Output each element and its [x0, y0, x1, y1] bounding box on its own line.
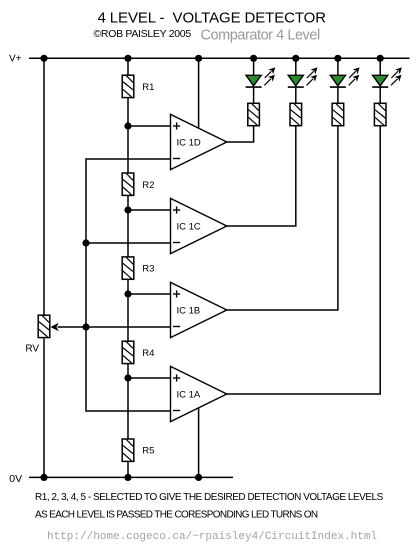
node R1/R2 junction — [124, 122, 131, 129]
node V+/IC supply junction — [195, 55, 202, 62]
node V+/LED1 junction — [250, 55, 257, 62]
svg-text:Comparator 4 Level: Comparator 4 Level — [201, 28, 320, 44]
svg-text:©ROB PAISLEY 2005: ©ROB PAISLEY 2005 — [94, 28, 192, 40]
wire bus to IC 1B inverting input — [86, 326, 171, 328]
wire node R2/R3 to IC 1C + input — [128, 209, 171, 211]
op-amp IC 1C — [171, 198, 227, 253]
svg-text:IC 1A: IC 1A — [177, 390, 201, 401]
wire RV wiper — [58, 326, 87, 328]
node 0V/IC ground junction — [195, 474, 202, 481]
svg-text:R3: R3 — [142, 264, 154, 275]
wire R5 to 0V — [127, 461, 129, 477]
LED D2 (green) — [288, 67, 318, 87]
svg-text:R2: R2 — [142, 180, 154, 191]
wire LED3 cathode to resistor — [337, 87, 339, 103]
node bus/wiper junction — [82, 323, 89, 330]
svg-text:http://home.cogeco.ca/~rpaisle: http://home.cogeco.ca/~rpaisley4/Circuit… — [47, 531, 377, 543]
svg-text:IC 1D: IC 1D — [177, 138, 201, 149]
wire R3 to R4 — [127, 279, 129, 341]
wire V+ supply stub to IC 1D — [198, 58, 200, 129]
wire IC 1B output — [227, 126, 338, 310]
wire IC 1A output — [227, 126, 380, 394]
wire R4 to R5 — [127, 364, 129, 439]
wire V+ to LED2 anode — [295, 58, 297, 76]
wire left rail lower (RV to 0V) — [43, 339, 45, 478]
LED D4 (green) — [372, 67, 402, 87]
svg-text:IC 1C: IC 1C — [177, 222, 201, 233]
node V+/LED4 junction — [377, 55, 384, 62]
wire bus to IC 1C inverting input — [86, 242, 171, 244]
wire V+ to LED3 anode — [337, 58, 339, 76]
node 0V/left rail junction — [40, 474, 47, 481]
wire V+ to LED1 anode — [253, 58, 255, 76]
svg-text:R1, 2, 3, 4, 5 - SELECTED TO G: R1, 2, 3, 4, 5 - SELECTED TO GIVE THE DE… — [35, 492, 384, 503]
op-amp IC 1B — [171, 282, 227, 337]
wire R2 to R3 — [127, 195, 129, 257]
node R2/R3 junction — [124, 206, 131, 213]
svg-text:AS EACH LEVEL IS PASSED THE CO: AS EACH LEVEL IS PASSED THE CORESPONDING… — [35, 509, 318, 520]
potentiometer RV — [38, 315, 50, 337]
svg-text:RV: RV — [25, 344, 39, 355]
op-amp IC 1D — [171, 114, 227, 169]
wire R1 to R2 — [127, 98, 129, 173]
svg-text:IC 1B: IC 1B — [177, 306, 201, 317]
resistor R1 — [122, 75, 134, 97]
LED D1 (green) — [246, 67, 276, 87]
node R3/R4 junction — [124, 290, 131, 297]
node V+/LED3 junction — [334, 55, 341, 62]
wire inverting input bus — [86, 159, 171, 411]
op-amp IC 1A — [171, 366, 227, 421]
wire IC 1C output — [227, 126, 296, 226]
wire left rail upper (V+ to RV) — [43, 58, 45, 315]
wire IC 1D output — [227, 126, 254, 142]
wire V+ rail — [29, 57, 410, 59]
resistor LED4 series — [374, 103, 386, 125]
wire node R4/R5 to IC 1A + input — [128, 377, 171, 379]
svg-text:R1: R1 — [142, 82, 154, 93]
resistor R3 — [122, 257, 134, 279]
resistor R5 — [122, 439, 134, 461]
svg-text:R5: R5 — [142, 446, 154, 457]
node V+/left rail junction — [40, 55, 47, 62]
wire node R1/R2 to IC 1D + input — [128, 125, 171, 127]
svg-text:4 LEVEL - VOLTAGE DETECTOR: 4 LEVEL - VOLTAGE DETECTOR — [98, 9, 327, 26]
resistor LED1 series — [248, 103, 260, 125]
node 0V/R5 junction — [124, 474, 131, 481]
RV wiper arrowhead — [51, 323, 59, 331]
node V+/R1 junction — [124, 55, 131, 62]
wire LED2 cathode to resistor — [295, 87, 297, 103]
node bus/IC 1C junction — [82, 239, 89, 246]
wire LED4 cathode to resistor — [379, 87, 381, 103]
wire resistor chain: V+ to R1 — [127, 58, 129, 75]
resistor LED2 series — [290, 103, 302, 125]
svg-text:V+: V+ — [9, 54, 22, 65]
wire 0V rail — [29, 476, 233, 478]
wire LED1 cathode to resistor — [253, 87, 255, 103]
wire V+ to LED4 anode — [379, 58, 381, 76]
resistor R2 — [122, 173, 134, 195]
resistor LED3 series — [332, 103, 344, 125]
svg-text:0V: 0V — [9, 473, 22, 485]
node V+/LED2 junction — [292, 55, 299, 62]
wire IC 1A to 0V stub — [198, 407, 200, 477]
svg-text:R4: R4 — [142, 348, 154, 359]
LED D3 (green) — [330, 67, 360, 87]
node R4/R5 junction — [124, 374, 131, 381]
resistor R4 — [122, 341, 134, 363]
wire node R3/R4 to IC 1B + input — [128, 293, 171, 295]
